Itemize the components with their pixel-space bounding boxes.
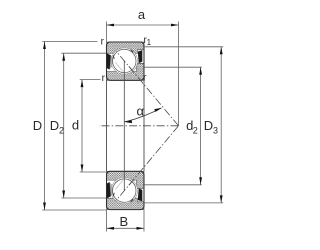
svg-text:a: a (138, 7, 146, 22)
node axis centre line (dash-dot) (99, 125, 179, 127)
dimension D2 (61, 53, 106, 198)
svg-text:r: r (102, 73, 106, 84)
svg-text:2: 2 (193, 125, 198, 135)
dimension d (80, 80, 107, 172)
wire: lower contact line (dash-dot) (116, 126, 178, 200)
upper bearing section (107, 42, 145, 80)
svg-text:r: r (143, 72, 147, 83)
wire: face line left between sections (106, 80, 108, 171)
wire: face line right between sections (143, 80, 145, 171)
svg-text:D: D (33, 118, 42, 133)
lower bearing section (mirrored) (107, 171, 145, 209)
svg-text:α: α (136, 104, 144, 119)
svg-text:B: B (119, 214, 128, 229)
dimension a (107, 22, 179, 126)
wire: upper contact line (dash-dot) (116, 51, 178, 125)
dimension B (107, 210, 145, 232)
dimension d2 (144, 67, 202, 185)
node angle alpha arc (125, 108, 162, 122)
svg-text:d: d (72, 118, 79, 133)
svg-text:3: 3 (213, 125, 218, 135)
svg-text:D: D (204, 118, 213, 133)
svg-text:1: 1 (147, 38, 152, 47)
svg-text:2: 2 (59, 126, 64, 136)
svg-text:D: D (50, 118, 59, 133)
svg-text:r: r (101, 36, 105, 47)
dimension D (42, 42, 106, 211)
dimension D3 (144, 47, 223, 203)
wire: ball centre vertical line (123, 61, 125, 191)
